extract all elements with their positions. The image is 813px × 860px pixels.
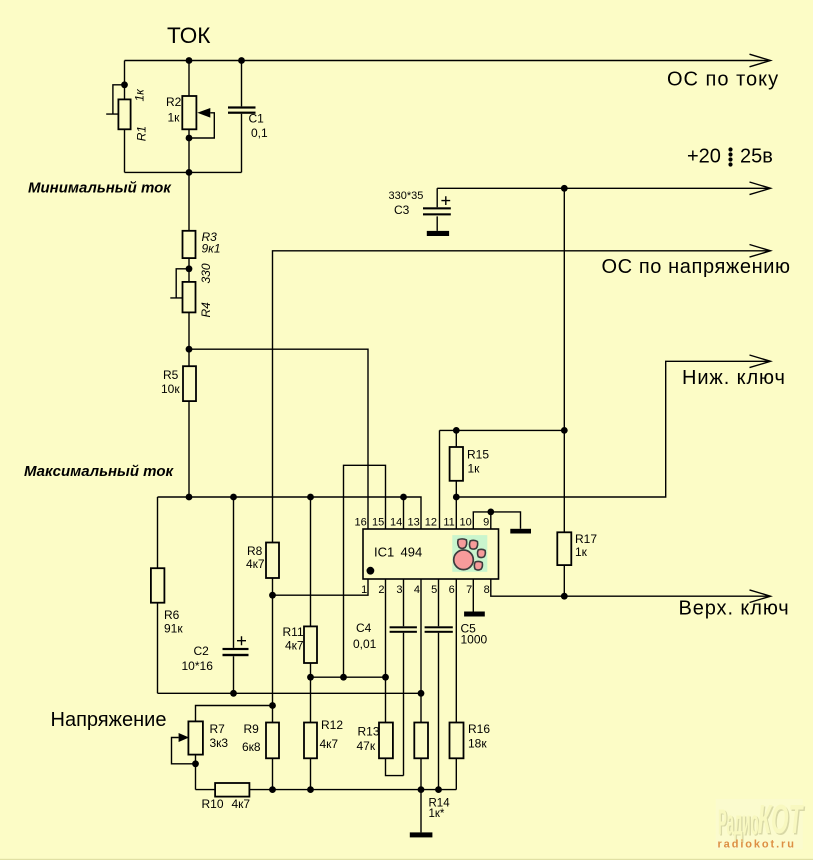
wire pin1 net [273, 579, 369, 595]
svg-text:Верх. ключ: Верх. ключ [679, 598, 790, 620]
capacitor C4 [353, 579, 417, 776]
ground C3 [427, 231, 449, 236]
resistor R12 [304, 718, 343, 790]
wire +V vertical rail [563, 188, 565, 532]
svg-text:14: 14 [390, 516, 402, 528]
resistor R10 [196, 783, 457, 811]
svg-text:4к7: 4к7 [232, 797, 251, 811]
svg-text:ОС по току: ОС по току [667, 69, 779, 91]
wire top block bottom [125, 171, 242, 173]
svg-text:25в: 25в [740, 146, 773, 168]
wire R5 bottom [188, 401, 190, 497]
svg-text:10*16: 10*16 [182, 659, 214, 673]
potentiometer R7 [172, 706, 273, 790]
svg-text:6к8: 6к8 [242, 740, 261, 754]
svg-text:R7: R7 [210, 722, 226, 736]
svg-text:R10: R10 [202, 797, 224, 811]
resistor R5 [161, 366, 196, 401]
capacitor C5 [425, 579, 488, 790]
logo paw [452, 535, 487, 572]
svg-text:0,01: 0,01 [353, 637, 377, 651]
svg-text:R13: R13 [358, 725, 380, 739]
svg-text:Радио: Радио [718, 801, 759, 842]
resistor R15 [450, 430, 490, 497]
resistor R1 [106, 85, 148, 142]
wire pins9-10 ground net [473, 512, 520, 529]
svg-text:3к3: 3к3 [210, 736, 229, 750]
wire y677 net [311, 676, 386, 678]
svg-text:1к: 1к [575, 545, 588, 559]
svg-text:8: 8 [484, 584, 490, 596]
pin numbers bottom [361, 584, 490, 596]
svg-text:radiokot.ru: radiokot.ru [718, 838, 796, 850]
svg-text:C2: C2 [194, 644, 210, 658]
resistor R9 [242, 722, 279, 790]
svg-text:3: 3 [396, 584, 402, 596]
svg-text:R5: R5 [163, 368, 179, 382]
svg-text:Напряжение: Напряжение [51, 709, 167, 731]
svg-text:16: 16 [355, 516, 367, 528]
wire R8 bottom to R9 [272, 578, 274, 723]
resistor R3 [183, 230, 221, 258]
pin numbers top [355, 516, 490, 528]
wire pin14 stub [403, 497, 405, 529]
wire pin7 ground stub [472, 579, 474, 612]
wire ОС по току rail [125, 54, 771, 67]
wire +20..25в rail [437, 182, 770, 195]
wire pin2 drop [385, 579, 387, 723]
svg-text:9к1: 9к1 [202, 242, 221, 256]
wire ОС по напряжению net [273, 245, 771, 543]
resistor R16 [450, 722, 491, 790]
svg-text:R1: R1 [135, 126, 149, 141]
svg-text:IC1: IC1 [374, 545, 394, 560]
wire ground rail y693 [158, 692, 422, 694]
svg-text:Минимальный ток: Минимальный ток [28, 180, 172, 197]
resistor R11 [283, 497, 318, 723]
wire node349 to pin16 [189, 349, 368, 529]
wire R1 bottom [124, 129, 126, 172]
svg-text:R15: R15 [467, 448, 489, 462]
svg-text:1000: 1000 [461, 633, 488, 647]
svg-text:R12: R12 [321, 718, 343, 732]
svg-text:1к: 1к [468, 462, 481, 476]
svg-text:10: 10 [460, 516, 472, 528]
ground pin7 [464, 612, 485, 617]
watermark [716, 796, 806, 850]
wire R2 top [188, 61, 190, 97]
wire R3-R4 [188, 258, 190, 282]
wire R2 bottom [188, 129, 190, 172]
svg-text:1к: 1к [133, 88, 147, 102]
svg-text:R17: R17 [575, 532, 597, 546]
svg-text:КОТ: КОТ [758, 796, 805, 842]
wire pin12 net [440, 430, 565, 529]
svg-text:+20: +20 [687, 146, 721, 168]
bottom edge line [0, 859, 813, 860]
svg-text:2: 2 [378, 584, 384, 596]
potentiometer R2 [166, 95, 214, 138]
wire pin15 jog to pin1 side [344, 465, 386, 677]
IC U1 body [363, 529, 499, 579]
wire error amp net y497 [158, 497, 422, 529]
capacitor C3 [389, 188, 451, 231]
svg-text:15: 15 [372, 516, 384, 528]
resistor R13 [357, 723, 404, 776]
svg-text:330: 330 [199, 263, 213, 283]
trimmer R4 [170, 263, 213, 317]
svg-text:R2: R2 [166, 95, 182, 109]
svg-text:5: 5 [431, 584, 437, 596]
svg-text:C3: C3 [394, 203, 410, 217]
wire Ниж. ключ net [456, 355, 770, 497]
svg-text:C4: C4 [356, 621, 372, 635]
wire R4-R5 [188, 312, 190, 366]
svg-text:6: 6 [449, 584, 455, 596]
svg-text:C1: C1 [249, 111, 265, 125]
svg-text:4к7: 4к7 [285, 639, 304, 653]
svg-text:7: 7 [466, 584, 472, 596]
svg-text:ТОК: ТОК [167, 23, 210, 48]
ground pin9 [510, 529, 531, 534]
svg-text:R11: R11 [283, 625, 304, 639]
wire pin4 drop [420, 579, 422, 723]
wire chain to R3 [188, 172, 190, 230]
svg-text:330*35: 330*35 [389, 190, 424, 202]
svg-text:47к: 47к [357, 739, 376, 753]
svg-text:4: 4 [414, 584, 420, 596]
resistor R8 [246, 543, 279, 579]
svg-text:R9: R9 [244, 722, 260, 736]
svg-text:91к: 91к [164, 622, 183, 636]
svg-text:4к7: 4к7 [320, 737, 339, 751]
resistor R17 [557, 532, 597, 596]
svg-text:10к: 10к [161, 382, 180, 396]
capacitor C2 [182, 497, 249, 693]
ground bottom [410, 790, 433, 838]
resistor R6 [151, 497, 183, 693]
svg-text:12: 12 [425, 516, 437, 528]
svg-text:494: 494 [401, 545, 423, 560]
svg-text:4к7: 4к7 [246, 557, 265, 571]
wire pin8 Верх. ключ net [491, 579, 771, 603]
svg-text:0,1: 0,1 [251, 126, 268, 140]
wire R1 top drop [124, 61, 126, 100]
wire pin11 stub [455, 497, 457, 529]
svg-text:13: 13 [408, 516, 420, 528]
wire pin6 drop [455, 579, 457, 723]
capacitor C1 [228, 61, 268, 173]
svg-text:Максимальный ток: Максимальный ток [24, 463, 174, 480]
svg-text:9: 9 [483, 516, 489, 528]
svg-text:1к*: 1к* [429, 808, 445, 820]
svg-text:1: 1 [361, 584, 367, 596]
svg-text:R6: R6 [164, 608, 180, 622]
svg-text:Ниж. ключ: Ниж. ключ [682, 367, 786, 389]
svg-text:1к: 1к [168, 110, 181, 124]
svg-text:R4: R4 [199, 302, 213, 318]
svg-text:R16: R16 [468, 722, 490, 736]
label +20..25в [687, 146, 773, 168]
svg-text:R8: R8 [247, 544, 263, 558]
svg-text:ОС по напряжению: ОС по напряжению [602, 256, 791, 278]
resistor R14 [414, 723, 450, 821]
svg-text:18к: 18к [468, 737, 487, 751]
svg-text:11: 11 [443, 516, 454, 528]
